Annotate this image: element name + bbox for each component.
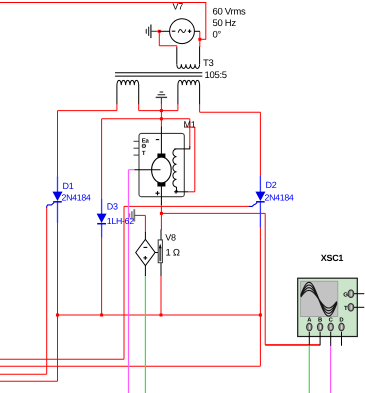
wire bottom feed 3 horizontal <box>0 380 58 382</box>
svg-text:0°: 0° <box>213 30 222 41</box>
junction V8 sense on rail <box>160 314 163 317</box>
wire rail to D1 horizontal <box>58 110 117 112</box>
wire V7 plus drop <box>199 32 201 47</box>
wire center tap right <box>177 104 179 111</box>
motor field coil bottom hook <box>176 187 178 192</box>
motor M1 box <box>139 133 184 196</box>
wire armature bottom drop <box>160 205 162 231</box>
wire field bottom vertical <box>194 127 196 192</box>
wire motor armature left (magenta) <box>129 169 135 171</box>
wire scope D pigtail <box>341 332 343 346</box>
ground at center tap (inverted) <box>156 92 167 104</box>
wire bottom feed 1 horizontal <box>0 358 124 360</box>
ground at sense branch (rotated gray) <box>130 209 140 221</box>
wire D3 anode vertical <box>101 119 103 200</box>
diode D3 <box>97 199 107 238</box>
wire center tap link horizontal <box>139 110 178 112</box>
wire primary left pin drop <box>176 46 178 48</box>
svg-text:D1: D1 <box>63 181 74 191</box>
svg-text:2N4184: 2N4184 <box>265 193 294 203</box>
wire scope B horizontal <box>265 344 320 346</box>
junction armature bottom / sense branch <box>160 212 163 215</box>
wire D2 anode vertical <box>259 112 261 176</box>
wire magenta drop to bottom edge <box>128 170 130 393</box>
wire V7 plus riser vertical <box>205 3 207 40</box>
junction center tap / ground stem <box>160 109 163 112</box>
wire field jog horizontal <box>184 126 195 128</box>
wire scope A pigtail <box>308 332 310 346</box>
wire cathode junction rail horizontal <box>58 314 261 316</box>
wire bottom feed 2 horizontal <box>0 373 47 375</box>
wire left secondary left pin <box>116 104 118 111</box>
motor armature top pin <box>160 127 162 154</box>
svg-text:V7: V7 <box>173 2 184 12</box>
wire D2 cathode vertical <box>259 227 261 366</box>
wire D1 anode vertical <box>57 111 59 178</box>
wire diamond top drop <box>144 215 146 232</box>
motor brush bottom <box>157 183 165 187</box>
svg-text:50 Hz: 50 Hz <box>213 18 237 29</box>
transformer T3 secondary left coil <box>116 85 118 104</box>
wire field bottom link <box>188 191 195 193</box>
svg-text:2N4184: 2N4184 <box>62 193 91 203</box>
svg-text:T3: T3 <box>203 58 214 69</box>
wire scope A green drop <box>308 345 310 393</box>
motor brush top <box>157 154 165 158</box>
wire scope C pigtail <box>330 332 332 346</box>
transformer T3 primary coil <box>176 48 178 65</box>
motor field coil <box>174 148 190 150</box>
motor armature ellipse <box>152 157 172 183</box>
wire armature bottom rail to scope B <box>161 212 265 214</box>
oscilloscope XSC1 <box>298 278 365 336</box>
wire rail to D2 horizontal <box>200 111 261 113</box>
wire bottom feed 4 horizontal <box>0 365 260 367</box>
motor plus mark armature <box>155 192 159 194</box>
transformer T3 core <box>115 72 202 74</box>
motor pin theta <box>134 147 140 149</box>
motor field top drop black part <box>189 146 191 149</box>
wire V7 minus drop <box>158 31 160 45</box>
svg-text:D3: D3 <box>107 201 118 211</box>
junction V7 minus/ground <box>158 30 161 33</box>
ground at V7 (rotated) <box>146 25 156 39</box>
wire scope B pigtail <box>319 332 321 346</box>
wire right secondary right pin <box>199 104 201 112</box>
wire V8 sense bottom <box>160 276 162 316</box>
wire jog to transformer primary right pin <box>200 38 206 40</box>
junction D1 cathode on rail <box>56 314 59 317</box>
wire to primary left pin horizontal <box>159 45 177 47</box>
wire ground to diamond plus <box>140 214 146 216</box>
wire top rail horizontal <box>0 2 206 4</box>
scr D2 <box>249 176 266 228</box>
svg-text:1 Ω: 1 Ω <box>166 248 180 259</box>
svg-text:60 Vrms: 60 Vrms <box>213 7 246 18</box>
motor pin T <box>134 154 140 156</box>
svg-text:105:5: 105:5 <box>205 70 227 81</box>
motor armature bottom pin <box>160 187 162 206</box>
transformer T3 secondary right coil <box>177 85 179 104</box>
junction D3 cathode on rail <box>100 314 103 317</box>
wire ground stem down to motor node <box>160 103 162 127</box>
wire scope C magenta drop <box>330 345 332 393</box>
svg-text:D2: D2 <box>266 180 277 190</box>
motor field bottom lead <box>176 191 188 193</box>
svg-text:Θ: Θ <box>142 143 147 150</box>
svg-text:XSC1: XSC1 <box>321 253 344 263</box>
controlled source V8 diamond <box>136 232 155 276</box>
wire gate rail D2 horizontal <box>124 205 249 207</box>
controlled source V8 sense branch <box>155 230 162 277</box>
motor minus mark <box>156 139 159 141</box>
svg-text:M1: M1 <box>184 119 196 129</box>
junction node rail / armature top <box>160 117 163 120</box>
junction V7 plus / primary <box>198 38 201 41</box>
motor plus mark field <box>174 191 178 193</box>
svg-text:V8: V8 <box>165 233 176 243</box>
wire center tap left <box>138 104 140 111</box>
wire field top drop <box>189 119 191 147</box>
wire V7 minus to ground <box>156 30 160 32</box>
wire node rail D3/motor/field horizontal <box>102 118 190 120</box>
ac source V7 <box>159 19 200 44</box>
svg-text:G: G <box>343 291 348 298</box>
wire gate D1 drop vertical <box>46 207 48 374</box>
wire gate D2 drop vertical <box>123 206 125 359</box>
wire D3 cathode vertical <box>101 237 103 315</box>
motor armature left lead <box>135 169 161 171</box>
wire D1 cathode vertical <box>57 223 59 382</box>
junction D2 cathode on rail <box>259 314 262 317</box>
scr D1 <box>47 177 63 223</box>
wire diamond minus green drop <box>144 276 146 393</box>
motor pin Ea <box>134 140 140 142</box>
wire scope B vertical <box>264 213 266 345</box>
